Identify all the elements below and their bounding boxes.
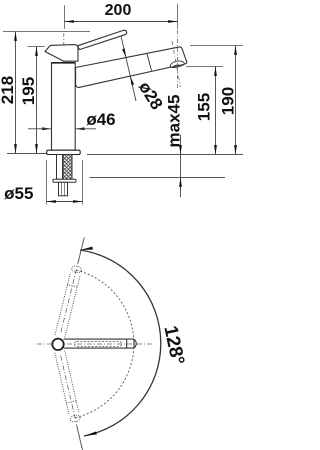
counter top line right xyxy=(87,154,243,156)
dimension 155 extension line xyxy=(186,66,223,68)
dimension o55 extension right xyxy=(82,160,84,205)
dimension o46 left shaft xyxy=(28,128,52,130)
dimension 218 line xyxy=(15,32,17,154)
dimension 218 arrow bottom xyxy=(14,144,17,153)
dimension o46 left arrow xyxy=(42,127,51,130)
dimension max45 lower arrow line xyxy=(180,178,182,198)
svg-text:ø46: ø46 xyxy=(86,110,115,129)
dimension 195 extension line xyxy=(28,46,45,48)
svg-text:200: 200 xyxy=(105,2,132,19)
aerator rim xyxy=(170,64,184,68)
svg-text:155: 155 xyxy=(195,93,214,121)
faucet body centerline xyxy=(63,33,65,151)
mounting washer xyxy=(53,179,76,182)
dimension 200 extension line left xyxy=(64,5,66,29)
dimension 155 arrow bottom xyxy=(214,145,217,154)
svg-text:ø28: ø28 xyxy=(135,78,167,113)
counter bottom line xyxy=(90,177,226,179)
dimension 200 extension line right xyxy=(177,4,179,29)
dimension 218 extension line xyxy=(3,31,90,33)
dimension 190 arrow top xyxy=(234,46,237,55)
dimension o28 arrow upper xyxy=(122,48,126,57)
dimension 155 arrow top xyxy=(214,67,217,76)
swivel locus arc dashed xyxy=(75,270,134,418)
dimension max45 line through counter xyxy=(180,155,182,178)
body joint line xyxy=(52,62,76,64)
dimension 200 arrow left xyxy=(65,20,74,23)
dimension 155 line xyxy=(215,67,217,155)
plan up arm (phantom) xyxy=(55,265,82,338)
dimension max45 lower arrow xyxy=(179,178,182,187)
faucet base flange xyxy=(47,150,80,154)
mounting stud inner lines xyxy=(62,182,65,196)
dimension 195 line xyxy=(36,47,38,154)
dimension 200 line xyxy=(65,21,178,23)
spout joint line xyxy=(147,54,152,71)
faucet handle housing xyxy=(45,45,78,62)
dimension 200 arrow right xyxy=(168,20,177,23)
plan up arm centerline xyxy=(61,240,84,332)
aerator centerline vertical xyxy=(177,30,179,89)
faucet lever xyxy=(78,30,127,49)
dimension o55 arrow right xyxy=(73,200,82,203)
svg-text:218: 218 xyxy=(0,76,17,104)
dimension max45 upper arrow line xyxy=(180,135,182,155)
svg-text:ø55: ø55 xyxy=(4,184,33,203)
dimension 190 line xyxy=(235,46,237,155)
dimension o46 right arrow xyxy=(75,127,84,130)
svg-text:190: 190 xyxy=(219,87,238,115)
faucet body column xyxy=(52,63,76,150)
counter top line left xyxy=(7,153,47,155)
swivel arc arrow bottom xyxy=(84,432,97,437)
aerator dome xyxy=(170,61,184,67)
dimension o46 right shaft xyxy=(75,128,96,130)
supply tube xyxy=(57,155,63,180)
plan spout arm solid xyxy=(64,339,137,348)
svg-text:195: 195 xyxy=(19,77,38,105)
dimension o55 arrow left xyxy=(47,200,56,203)
plan centerline horizontal xyxy=(37,343,152,345)
dimension 195 arrow bottom xyxy=(35,144,38,153)
mounting stud xyxy=(59,182,68,196)
plan pivot circle xyxy=(52,339,63,350)
dimension 218 arrow top xyxy=(14,32,17,41)
swivel arc arrow top xyxy=(80,247,93,250)
dimension 190 arrow bottom xyxy=(234,145,237,154)
swivel arc tick bottom xyxy=(77,426,83,450)
dimension o55 line xyxy=(47,201,83,203)
swivel arc tick top xyxy=(78,237,84,262)
threaded shank hatched xyxy=(63,155,72,180)
swivel angle arc xyxy=(80,250,161,436)
plan spout slot dashed xyxy=(74,342,121,347)
svg-text:128°: 128° xyxy=(159,324,188,367)
dimension max45 upper arrow xyxy=(179,145,182,154)
plan down arm (phantom) xyxy=(55,351,81,423)
faucet spout xyxy=(76,47,187,87)
dimension o28 arrow lower xyxy=(130,76,134,85)
dimension o55 extension left xyxy=(46,160,48,205)
dimension 195 arrow top xyxy=(35,47,38,56)
dimension 190 extension line xyxy=(190,45,243,47)
aerator outlet xyxy=(174,64,180,67)
aerator axis dashed xyxy=(172,41,181,87)
dimension o28 leader line xyxy=(121,36,136,101)
plan down arm centerline xyxy=(61,356,82,448)
